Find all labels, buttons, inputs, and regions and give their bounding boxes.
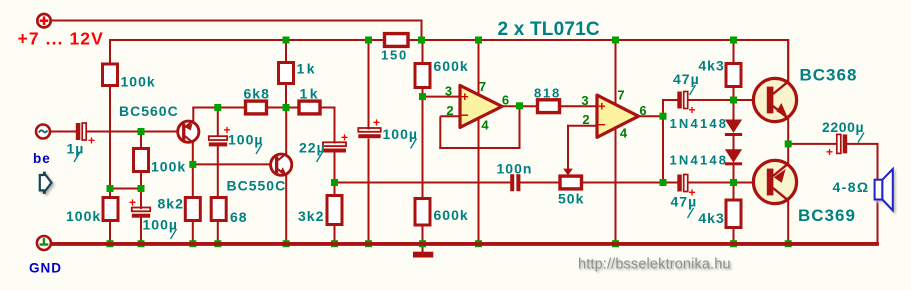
wire BC369 emitter from output node — [787, 143, 789, 166]
wire drive row y100 left — [662, 99, 679, 101]
wire 68 to ground — [217, 220, 219, 245]
label +7 ... 12V — [18, 29, 104, 49]
svg-text:BC368: BC368 — [800, 66, 858, 85]
label 50k — [558, 191, 584, 207]
pin 2 U1 — [446, 103, 454, 118]
wire 47u C9 to BC369 base — [687, 182, 755, 184]
transistor BC368 Q3 — [753, 78, 796, 121]
wire U2 pin7 supply — [615, 39, 617, 105]
trimmer 50k P1 — [560, 176, 582, 189]
pin 4 U1 — [481, 118, 489, 133]
wire U1 pin2 stub — [440, 115, 462, 117]
svg-text:100k: 100k — [121, 74, 156, 90]
resistor 6k8 R6 — [246, 101, 267, 114]
wire 818 to U2 pin3 — [560, 105, 599, 107]
pin 6 U2 — [639, 103, 647, 118]
wire mid row y182 center — [520, 182, 561, 184]
wire input signal from source to 1u cap — [50, 131, 76, 133]
wire U1 feedback drop — [519, 105, 521, 149]
label 4k3 R14 — [698, 58, 724, 74]
op-amp U2 TL071 — [597, 95, 639, 137]
wire output column x663 — [662, 99, 664, 183]
wire 6k8 to 1k — [267, 107, 300, 109]
svg-text:+: + — [88, 134, 96, 148]
node V+ at U1 pin7 — [475, 37, 482, 44]
wire bias column x110 upper — [109, 39, 111, 64]
wire U1 feedback riser — [439, 116, 441, 149]
svg-text:+: + — [129, 196, 137, 210]
wire V+ rail left segment — [110, 39, 386, 41]
wire U1 pin7 supply — [478, 39, 480, 96]
node amp output — [785, 140, 792, 147]
diode 1N4148 D1 — [725, 120, 742, 137]
wire 100u C2 to ground — [140, 217, 142, 245]
transistor BC560C Q1 — [178, 120, 199, 143]
node mid row at x663 — [660, 179, 667, 186]
label 1u — [67, 141, 85, 163]
label 150 — [381, 48, 408, 63]
svg-text:3: 3 — [581, 93, 589, 108]
svg-text:+: + — [373, 116, 381, 130]
pin 7 U2 — [617, 88, 625, 103]
label 100u C1 — [228, 132, 263, 155]
label 4k3 R15 — [698, 210, 724, 226]
node V+ at U2 pin7 — [612, 37, 619, 44]
node ground at U2 pin4 — [612, 240, 619, 247]
wire 4k3 to diode D1 — [733, 87, 735, 122]
wire U2 pin2 stub — [567, 125, 598, 127]
ground terminal — [37, 236, 51, 250]
wire 50k wiper drop — [567, 125, 569, 170]
svg-text:1k: 1k — [300, 86, 321, 102]
node V+ at 4k3 — [730, 37, 737, 44]
label 2 x TL071C — [498, 19, 600, 40]
svg-text:150: 150 — [381, 48, 408, 63]
resistor 100k R1 — [103, 64, 118, 86]
wire bias tie y188 — [109, 188, 142, 190]
node ground at 100u C5 — [365, 240, 372, 247]
wire base bias junction drop — [140, 132, 142, 150]
label GND — [29, 261, 62, 276]
wire U1 pin4 to ground — [478, 117, 480, 244]
wire 100u C5 column upper — [368, 39, 370, 130]
wire 2200u to speaker corner — [847, 143, 879, 145]
node diode bottom — [730, 179, 737, 186]
label 100k R1 — [121, 74, 156, 90]
wire BC368 collector — [787, 40, 789, 82]
wire diode column upper — [733, 39, 735, 64]
label 2200u — [822, 119, 864, 143]
svg-text:100µ: 100µ — [143, 217, 178, 233]
pin 4 U2 — [620, 126, 628, 141]
resistor 3k2 R9 — [327, 196, 342, 225]
capacitor 100u C1 — [209, 123, 232, 146]
wire 600k column middle — [422, 88, 424, 199]
svg-text:4: 4 — [620, 126, 628, 141]
resistor 4k3 R14 — [726, 64, 741, 87]
resistor 600k R12 — [415, 199, 430, 226]
svg-text:BC560C: BC560C — [119, 103, 179, 119]
wire bias column x110 lower — [109, 221, 111, 245]
capacitor 47u C8 — [677, 92, 696, 118]
node ground at 4k3 R14 — [730, 240, 737, 247]
svg-text:50k: 50k — [558, 191, 584, 207]
label 1k R7 — [300, 86, 321, 102]
wire drive row y100 to BC368 base — [687, 99, 757, 101]
label 100u C5 — [383, 126, 418, 149]
label 100n — [497, 161, 533, 177]
wire mid row to 47u C9 — [663, 182, 679, 184]
label 22u — [299, 140, 326, 163]
label 8k2 — [158, 196, 184, 212]
capacitor 47u C9 — [677, 175, 696, 200]
svg-text:+: + — [826, 145, 834, 159]
wire BC560C collector drop — [192, 142, 194, 166]
wire output node to 2200u — [787, 143, 838, 145]
wire 600k column upper — [422, 39, 424, 64]
node bias tie right — [138, 185, 145, 192]
wire BC550C emitter to ground — [285, 175, 287, 244]
label 600k R12 — [434, 207, 469, 223]
svg-text:8k2: 8k2 — [158, 196, 184, 212]
transistor BC369 Q4 — [753, 160, 796, 203]
label 100u C2 — [143, 217, 178, 240]
wire diode D1 to D2 — [733, 136, 735, 151]
resistor 100k R2 — [134, 149, 149, 172]
svg-text:4: 4 — [481, 118, 489, 133]
node U2 output — [660, 113, 667, 120]
label BC368 — [800, 66, 858, 85]
wire speaker drop — [877, 143, 879, 243]
wire bias column x110 middle — [109, 84, 111, 198]
wire 8k2 upper stub — [192, 164, 194, 199]
resistor 600k R11 — [415, 64, 430, 88]
svg-text:1N4148: 1N4148 — [670, 116, 729, 131]
svg-text:4k3: 4k3 — [698, 210, 724, 226]
node 6k8-1k — [283, 104, 290, 111]
pin 3 U1 — [445, 84, 453, 99]
wire 22u column to junction — [334, 153, 336, 196]
node 8k2 top — [189, 161, 196, 168]
wire BC550C base — [192, 163, 271, 165]
wire BC550C collector riser — [285, 107, 287, 155]
node bias tie left — [107, 185, 114, 192]
node V+ at 600k — [418, 37, 425, 44]
svg-text:−: − — [598, 117, 607, 132]
wire mid row y182 right — [582, 182, 665, 184]
node ground at 600k — [419, 240, 426, 247]
wire positive rail drop — [421, 20, 423, 42]
svg-text:100µ: 100µ — [228, 132, 263, 148]
power terminal + — [37, 14, 50, 27]
label 100k R2 — [151, 159, 186, 175]
svg-text:4k3: 4k3 — [698, 58, 724, 74]
svg-text:6: 6 — [639, 103, 647, 118]
resistor 1k R8 — [279, 63, 294, 84]
svg-text:68: 68 — [230, 209, 248, 225]
wire 8k2 to ground — [192, 220, 194, 245]
svg-text:600k: 600k — [434, 207, 469, 223]
svg-text:100n: 100n — [497, 161, 533, 177]
resistor 68 R5 — [211, 198, 226, 221]
label 3k2 — [298, 208, 324, 224]
node ground at 68 — [214, 240, 221, 247]
label 68 — [230, 209, 248, 225]
svg-text:http://bsselektronika.hu: http://bsselektronika.hu — [578, 257, 731, 273]
label be — [33, 151, 51, 166]
node BC560C emitter at 100u C1 — [214, 104, 221, 111]
svg-text:BC369: BC369 — [798, 206, 856, 225]
wire BC560C emitter riser — [192, 108, 194, 122]
wire 1k to 22u corner — [320, 107, 335, 109]
label 600k R11 — [434, 58, 469, 74]
wire U1 output to 818 — [501, 105, 538, 107]
wire 3k2 to ground — [334, 225, 336, 245]
wire V+ rail drop to BC368 collector — [787, 39, 789, 84]
resistor 1k R7 — [299, 101, 320, 114]
node V+ at 1k — [283, 37, 290, 44]
wire diode D2 to junction — [733, 165, 735, 183]
svg-text:+7 ... 12V: +7 ... 12V — [18, 29, 104, 49]
pin 3 U2 — [581, 93, 589, 108]
wire mid row y182 left — [335, 182, 511, 184]
capacitor 1u C0 — [76, 123, 96, 148]
node U1 pin3 input — [419, 93, 426, 100]
svg-text:6: 6 — [502, 93, 510, 108]
label 1k R8 — [297, 61, 318, 77]
svg-text:600k: 600k — [434, 58, 469, 74]
svg-text:47µ: 47µ — [671, 194, 698, 210]
node U1 output — [516, 102, 523, 109]
input terminal AC source — [36, 125, 50, 139]
chassis ground bar — [413, 252, 433, 258]
wire 100u C5 column lower — [368, 139, 370, 245]
node ground at 100k — [107, 240, 114, 247]
resistor 4k3 R15 — [726, 200, 741, 228]
wire 100k bias lower stub — [140, 171, 142, 209]
resistor 100k R3 — [103, 198, 118, 221]
node diode top — [730, 97, 737, 104]
label BC550C — [227, 178, 287, 194]
svg-text:+: + — [461, 89, 470, 104]
input direction arrow — [40, 172, 52, 194]
label BC369 — [798, 206, 856, 225]
wire 22u column upper — [334, 107, 336, 144]
svg-text:47µ: 47µ — [673, 71, 700, 87]
wire 1k to emitter row — [285, 83, 287, 109]
svg-text:1k: 1k — [297, 61, 318, 77]
svg-text:2200µ: 2200µ — [822, 119, 864, 135]
wire 600k column lower — [422, 225, 424, 244]
label 1N4148 D1 — [670, 116, 729, 131]
label 47u C8 — [673, 71, 700, 95]
resistor 150 R10 — [385, 34, 409, 47]
svg-text:1N4148: 1N4148 — [670, 153, 729, 168]
wire U1 feedback bottom — [439, 147, 520, 149]
label BC560C — [119, 103, 179, 119]
transistor BC550C Q2 — [271, 153, 292, 176]
node ground at 3k2 — [331, 240, 338, 247]
speaker 4-8 ohm — [875, 169, 893, 210]
capacitor 2200u C10 — [826, 134, 847, 159]
svg-text:+: + — [688, 103, 696, 117]
svg-text:2: 2 — [582, 112, 590, 127]
svg-text:2: 2 — [446, 103, 454, 118]
svg-text:3k2: 3k2 — [298, 208, 324, 224]
wire 50k wiper arrow — [563, 169, 573, 176]
capacitor 100u C2 — [129, 196, 150, 218]
wire input signal from 1u cap to base — [86, 131, 178, 133]
node V+ at 100u C5 — [365, 37, 372, 44]
svg-text:be: be — [33, 151, 51, 166]
svg-text:818: 818 — [534, 86, 561, 101]
wire ground symbol stub — [422, 244, 424, 252]
label 4-8 ohm — [833, 179, 870, 195]
svg-text:100µ: 100µ — [383, 126, 418, 142]
svg-text:+: + — [341, 131, 349, 145]
wire 100u C1 to 68 resistor — [217, 146, 219, 199]
node ground at 8k2 — [189, 240, 196, 247]
wire 1k column upper — [285, 39, 287, 63]
svg-text:GND: GND — [29, 261, 62, 276]
svg-text:BC550C: BC550C — [227, 178, 287, 194]
wire emitter row to 6k8 — [192, 107, 245, 109]
svg-text:3: 3 — [445, 84, 453, 99]
wire BC368 emitter to output node — [787, 117, 789, 146]
op-amp U1 TL071 — [460, 85, 502, 127]
capacitor 100u C5 — [358, 116, 381, 139]
resistor 8k2 R4 — [185, 198, 200, 221]
svg-text:−: − — [461, 108, 470, 123]
wire BC369 collector to ground — [787, 199, 789, 245]
node ground at U1 pin4 — [475, 240, 482, 247]
node base bias BC560C — [138, 128, 145, 135]
wire 4k3 R14 to ground — [733, 228, 735, 245]
wire ground rail overlay — [51, 242, 879, 246]
label 6k8 — [244, 86, 270, 102]
label 100k R3 — [66, 208, 101, 224]
svg-text:4-8Ω: 4-8Ω — [833, 179, 870, 195]
wire U2 pin4 to ground — [615, 127, 617, 244]
pin 6 U1 — [502, 93, 510, 108]
node ground at BC550C emitter — [283, 240, 290, 247]
svg-text:100k: 100k — [151, 159, 186, 175]
wire V+ rail right segment — [407, 39, 789, 41]
capacitor 100n C6 — [510, 174, 520, 191]
node 22u-3k2 — [331, 179, 338, 186]
node ground at BC369 collector — [785, 240, 792, 247]
label site url — [578, 257, 731, 273]
pin 2 U2 — [582, 112, 590, 127]
pin 7 U1 — [479, 79, 487, 94]
capacitor 22u C3 — [323, 131, 349, 153]
svg-text:7: 7 — [617, 88, 625, 103]
wire U2 output — [637, 115, 664, 117]
svg-text:7: 7 — [479, 79, 487, 94]
svg-text:1µ: 1µ — [67, 141, 85, 157]
diode 1N4148 D2 — [725, 149, 742, 165]
node ground at 100u C2 — [138, 240, 145, 247]
wire U1 pin3 input — [423, 96, 463, 98]
wire positive rail from + terminal — [52, 20, 422, 22]
label 818 — [534, 86, 561, 101]
svg-text:6k8: 6k8 — [244, 86, 270, 102]
label 1N4148 D2 — [670, 153, 729, 168]
label 47u C9 — [671, 194, 698, 219]
svg-text:100k: 100k — [66, 208, 101, 224]
wire ground rail — [51, 242, 879, 246]
resistor 818 R13 — [538, 100, 560, 113]
svg-text:+: + — [598, 99, 607, 114]
wire junction to 4k3 R14 — [733, 182, 735, 200]
wire 100u C1 column upper — [217, 107, 219, 138]
svg-text:2 x TL071C: 2 x TL071C — [498, 19, 600, 40]
